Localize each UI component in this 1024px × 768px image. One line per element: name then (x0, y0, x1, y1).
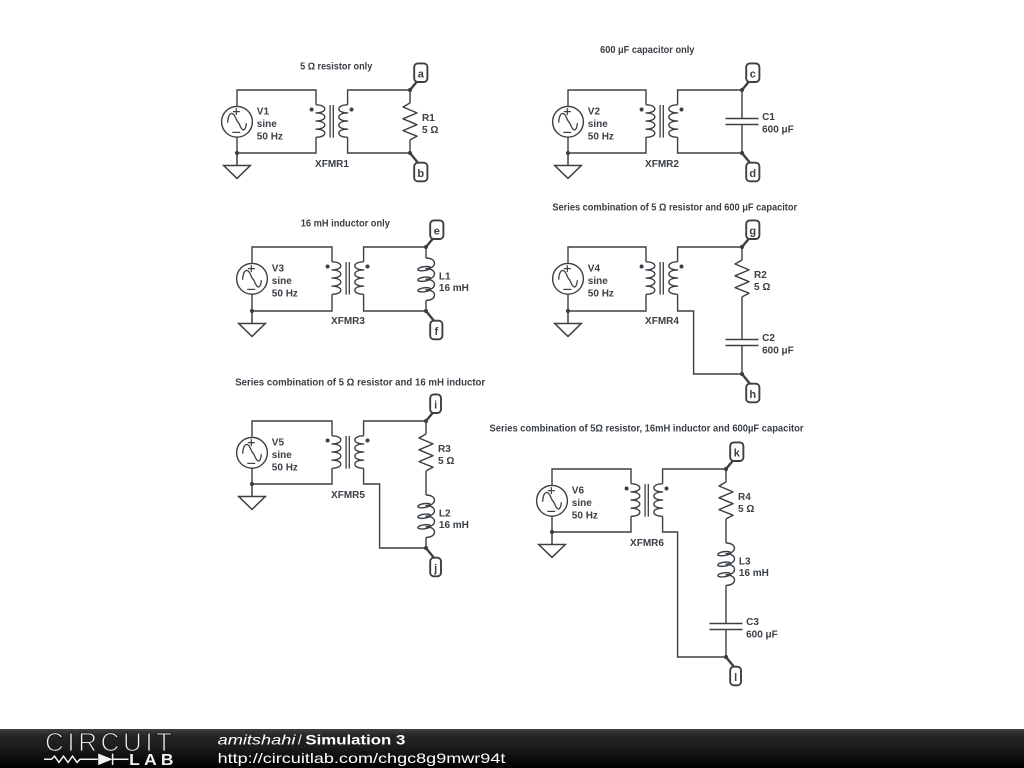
svg-text:sine: sine (257, 119, 277, 130)
wire: load column segments circuit 6 (725, 469, 727, 657)
wire: XFMR3 secondary top to load column (364, 247, 426, 262)
capacitor C2 (726, 340, 759, 346)
svg-text:k: k (734, 448, 741, 460)
svg-text:50 Hz: 50 Hz (272, 462, 298, 473)
svg-text:i: i (434, 400, 437, 412)
inductor L2 (426, 495, 434, 537)
svg-text:amitshahi: amitshahi (218, 733, 297, 748)
voltage source V1 (222, 106, 253, 137)
svg-text:h: h (749, 389, 756, 401)
wire: XFMR4 secondary top to load column (678, 247, 742, 262)
svg-text:5 Ω: 5 Ω (754, 282, 770, 293)
junction: ground node of V1 (235, 151, 239, 155)
node e terminal (426, 238, 433, 247)
ground (239, 484, 266, 509)
svg-text:V3: V3 (272, 263, 285, 274)
svg-text:600 μF: 600 μF (762, 346, 794, 357)
wire: XFMR6 secondary top to load column (663, 469, 726, 484)
voltage source V5 (237, 437, 268, 468)
resistor R4 (719, 482, 733, 519)
svg-text:XFMR1: XFMR1 (315, 159, 349, 170)
wire: XFMR1 secondary bottom to load column (348, 137, 410, 153)
wire: V2- to XFMR2 primary bottom (568, 137, 646, 153)
wire: XFMR6 secondary bottom return to node l (663, 516, 726, 657)
wire: XFMR2 secondary bottom to load column (678, 137, 742, 153)
junction: node e (424, 245, 428, 249)
svg-text:Series combination of 5Ω resis: Series combination of 5Ω resistor, 16mH … (490, 423, 804, 434)
svg-text:f: f (434, 326, 438, 338)
wire: XFMR1 secondary top to load column (348, 90, 410, 105)
node b terminal (410, 153, 419, 164)
svg-text:Series combination of 5 Ω resi: Series combination of 5 Ω resistor and 1… (235, 377, 485, 388)
transformer XFMR5 (332, 436, 341, 468)
voltage source V4 (553, 263, 584, 294)
svg-text:C3: C3 (746, 617, 759, 628)
svg-text:sine: sine (272, 276, 292, 287)
wire: V2+ to XFMR2 primary top (568, 90, 646, 106)
svg-text:R4: R4 (738, 492, 751, 503)
svg-text:Series combination of 5 Ω resi: Series combination of 5 Ω resistor and 6… (552, 202, 797, 213)
transformer XFMR1 (316, 105, 325, 137)
svg-text:sine: sine (272, 450, 292, 461)
voltage source V3 (237, 263, 268, 294)
junction: node h (740, 372, 744, 376)
wire: XFMR2 secondary top to load column (678, 90, 742, 105)
svg-text:600 μF capacitor only: 600 μF capacitor only (600, 45, 695, 56)
junction: node f (424, 309, 428, 313)
junction: ground node of V2 (566, 151, 570, 155)
inductor L3 (726, 543, 734, 585)
wire: V5- to XFMR5 primary bottom (252, 468, 332, 484)
resistor R3 (419, 434, 433, 471)
wire: XFMR3 secondary bottom to load column (364, 294, 426, 311)
svg-text:16 mH: 16 mH (439, 283, 469, 294)
wire: V4- to XFMR4 primary bottom (568, 294, 646, 311)
svg-text:Simulation 3: Simulation 3 (305, 733, 405, 748)
svg-text:V4: V4 (588, 263, 601, 274)
wire: load column segments circuit 5 (425, 421, 427, 548)
svg-text:50 Hz: 50 Hz (272, 288, 298, 299)
wire: V6- to XFMR6 primary bottom (552, 516, 631, 532)
svg-text:j: j (433, 563, 437, 575)
node c terminal (742, 81, 749, 90)
svg-text:5 Ω: 5 Ω (438, 456, 454, 467)
svg-text:50 Hz: 50 Hz (588, 131, 614, 142)
wire: load column segments circuit 3 (425, 247, 427, 311)
svg-text:600 μF: 600 μF (746, 630, 778, 641)
junction: node j (424, 546, 428, 550)
svg-text:L2: L2 (439, 508, 451, 519)
ground (224, 153, 251, 178)
svg-text:16 mH: 16 mH (439, 520, 469, 531)
svg-text:XFMR2: XFMR2 (645, 159, 679, 170)
svg-text:d: d (749, 168, 756, 180)
node j terminal (426, 548, 435, 559)
svg-text:V6: V6 (572, 485, 585, 496)
svg-text:XFMR6: XFMR6 (630, 538, 664, 549)
svg-text:sine: sine (572, 498, 592, 509)
junction: ground node of V5 (250, 482, 254, 486)
transformer XFMR2 (646, 105, 655, 137)
svg-text:sine: sine (588, 119, 608, 130)
node a terminal (410, 81, 417, 90)
node f terminal (426, 311, 435, 322)
wire: XFMR4 secondary bottom return to node h (678, 294, 742, 374)
svg-text:l: l (734, 672, 737, 684)
wire: XFMR5 secondary top to load column (364, 421, 426, 436)
node i terminal (426, 412, 433, 421)
wire: V1+ to XFMR1 primary top (237, 90, 316, 106)
wire: load column segments circuit 1 (409, 90, 411, 153)
logo resistor-diode glyph (44, 754, 129, 765)
svg-text:XFMR3: XFMR3 (331, 316, 365, 327)
capacitor C1 (726, 119, 759, 125)
junction: node l (724, 655, 728, 659)
svg-text:/: / (298, 733, 302, 748)
wire: V1- to XFMR1 primary bottom (237, 137, 316, 153)
svg-text:R1: R1 (422, 113, 435, 124)
svg-text:e: e (434, 226, 440, 238)
svg-text:50 Hz: 50 Hz (572, 510, 598, 521)
node d terminal (742, 153, 751, 164)
transformer XFMR6 (631, 484, 640, 516)
svg-text:R3: R3 (438, 444, 451, 455)
svg-text:sine: sine (588, 276, 608, 287)
svg-text:XFMR4: XFMR4 (645, 316, 679, 327)
junction: node b (408, 151, 412, 155)
capacitor C3 (710, 624, 743, 630)
wire: V4+ to XFMR4 primary top (568, 247, 646, 263)
svg-text:16 mH inductor only: 16 mH inductor only (301, 218, 391, 229)
node g terminal (742, 238, 749, 247)
junction: node k (724, 467, 728, 471)
ground (555, 153, 582, 178)
wire: load column segments circuit 2 (741, 90, 743, 153)
wire: V3- to XFMR3 primary bottom (252, 294, 332, 311)
node h terminal (742, 374, 751, 385)
junction: node d (740, 151, 744, 155)
resistor R2 (735, 260, 749, 297)
ground (239, 311, 266, 336)
svg-text:a: a (418, 69, 425, 81)
svg-text:C2: C2 (762, 333, 775, 344)
ground (539, 532, 566, 557)
transformer XFMR4 (646, 262, 655, 294)
svg-text:V1: V1 (257, 106, 270, 117)
wire: XFMR5 secondary bottom return to node j (364, 468, 426, 548)
node l terminal (726, 657, 735, 668)
svg-text:V2: V2 (588, 106, 601, 117)
svg-text:c: c (750, 69, 756, 81)
wire: V6+ to XFMR6 primary top (552, 469, 631, 485)
resistor R1 (403, 103, 417, 140)
svg-text:5 Ω: 5 Ω (738, 504, 754, 515)
svg-text:http://circuitlab.com/chgc8g9m: http://circuitlab.com/chgc8g9mwr94t (218, 751, 506, 766)
junction: node i (424, 419, 428, 423)
svg-text:L3: L3 (739, 556, 751, 567)
junction: ground node of V6 (550, 530, 554, 534)
inductor L1 (426, 258, 434, 300)
transformer XFMR3 (332, 262, 341, 294)
junction: ground node of V4 (566, 309, 570, 313)
voltage source V2 (553, 106, 584, 137)
node k terminal (726, 460, 733, 469)
ground (555, 311, 582, 336)
svg-text:600 μF: 600 μF (762, 125, 794, 136)
voltage source V6 (537, 485, 568, 516)
svg-text:R2: R2 (754, 270, 767, 281)
svg-text:5 Ω resistor only: 5 Ω resistor only (300, 61, 373, 72)
svg-text:5 Ω: 5 Ω (422, 125, 438, 136)
svg-text:b: b (417, 168, 424, 180)
svg-text:C1: C1 (762, 112, 775, 123)
svg-text:L1: L1 (439, 271, 451, 282)
junction: ground node of V3 (250, 309, 254, 313)
svg-text:16 mH: 16 mH (739, 568, 769, 579)
junction: node a (408, 88, 412, 92)
wire: V5+ to XFMR5 primary top (252, 421, 332, 437)
svg-text:XFMR5: XFMR5 (331, 490, 365, 501)
svg-text:50 Hz: 50 Hz (257, 131, 283, 142)
junction: node c (740, 88, 744, 92)
svg-text:LAB: LAB (129, 752, 178, 768)
svg-text:50 Hz: 50 Hz (588, 288, 614, 299)
junction: node g (740, 245, 744, 249)
wire: load column segments circuit 4 (741, 247, 743, 374)
svg-text:V5: V5 (272, 437, 285, 448)
svg-text:g: g (749, 226, 756, 238)
wire: V3+ to XFMR3 primary top (252, 247, 332, 263)
